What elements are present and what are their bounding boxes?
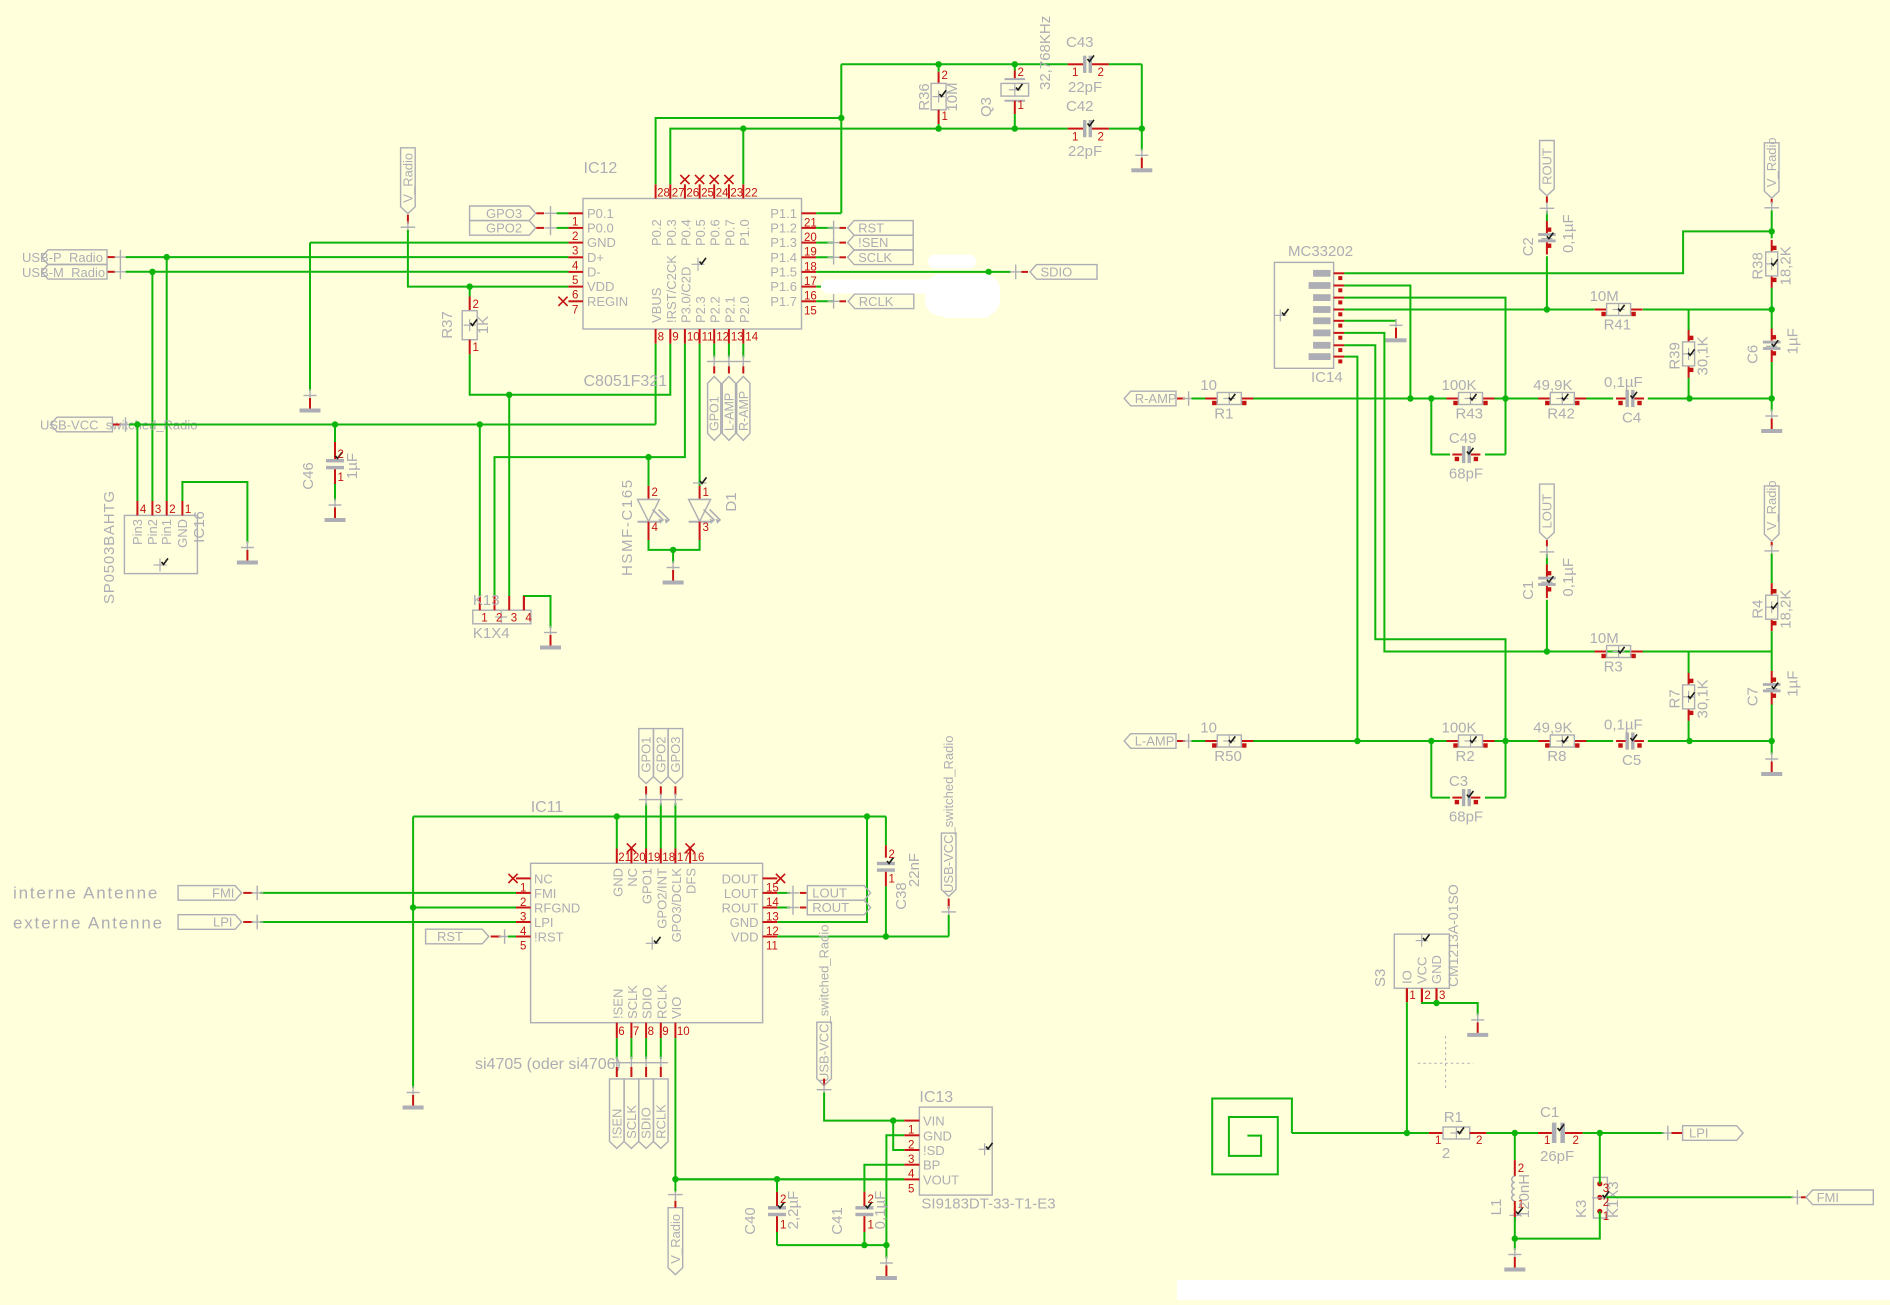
svg-text:HSMF-C165: HSMF-C165 [619, 478, 636, 576]
wire R-AMP under IC12 [742, 344, 744, 358]
svg-text:P2.2: P2.2 [708, 296, 723, 323]
capacitor C6 (1µF) [1771, 310, 1773, 329]
net flag GPO1 pennant under IC12 [708, 376, 721, 440]
svg-text:P1.1: P1.1 [770, 206, 797, 221]
svg-text:K1X4: K1X4 [473, 625, 510, 642]
svg-text:FMI: FMI [1817, 1190, 1839, 1205]
svg-text:GND: GND [730, 915, 759, 930]
net flag RCLK pennant [654, 1079, 669, 1149]
svg-text:5: 5 [908, 1183, 914, 1195]
svg-text:Pin2: Pin2 [145, 519, 160, 545]
svg-text:24: 24 [716, 188, 729, 200]
svg-text:1: 1 [703, 487, 709, 499]
wire LOUT dash [800, 892, 807, 894]
svg-text:0,1µF: 0,1µF [1560, 214, 1577, 253]
wire R4 to w6 [1771, 631, 1773, 651]
wire RCLK [816, 300, 833, 302]
resistor R38 (18,2K) [1771, 240, 1773, 252]
wire GPO3 to pin1 [557, 212, 569, 214]
net flag LOUT [807, 886, 870, 901]
tick USB-VCC [125, 417, 127, 432]
svg-text:20: 20 [633, 852, 646, 864]
wire GPO1 under IC12 [713, 344, 715, 358]
tick LPI [256, 915, 258, 930]
svg-text:P0.3: P0.3 [664, 219, 679, 246]
wire RCLK dash b [660, 1067, 662, 1077]
ground K13 [544, 632, 557, 634]
tick FMI b [1796, 1190, 1798, 1205]
svg-text:IC14: IC14 [1311, 369, 1343, 386]
wire GPO3 dash [536, 212, 544, 214]
svg-text:USB-P_Radio: USB-P_Radio [22, 250, 103, 265]
svg-text:ROUT: ROUT [812, 900, 849, 915]
svg-text:1: 1 [572, 216, 578, 228]
supply flag V_Radio (top right) [1764, 143, 1779, 198]
svg-text:GND: GND [587, 235, 616, 250]
junction feed K3 [1597, 1130, 1603, 1136]
wire V_Radio br [1771, 554, 1773, 584]
wire K3 pin1 to gnd [1515, 1211, 1600, 1238]
supply pennant USB-VCC_switched_Radio (IC13) [817, 1022, 832, 1085]
svg-text:si4705 (oder si4706): si4705 (oder si4706) [475, 1056, 621, 1073]
capacitor C4 (0,1µF) [1616, 398, 1626, 400]
svg-text:P0.7: P0.7 [722, 219, 737, 246]
svg-text:C5: C5 [1622, 752, 1641, 769]
wire C46 to ground [334, 484, 336, 501]
tick SCLK [833, 250, 835, 265]
resistor R41 (10M) [1595, 309, 1607, 311]
tick GPO2 [550, 221, 552, 236]
svg-text:FMI: FMI [534, 886, 556, 901]
capacitor C41 [863, 1192, 865, 1206]
net flag R-AMP [1124, 391, 1176, 406]
svg-text:3: 3 [572, 246, 578, 258]
svg-text:SCLK: SCLK [624, 1105, 639, 1139]
svg-text:C1: C1 [1540, 1104, 1559, 1121]
junction S3 gnd [1433, 1000, 1439, 1006]
net flag SDIO pennant [639, 1079, 654, 1149]
wire net VDD IC11 [777, 936, 948, 938]
net flag USB-VCC_switched_Radio [51, 417, 113, 432]
wire Lrow gnd [1771, 741, 1773, 755]
svg-text:C7: C7 [1745, 687, 1762, 706]
svg-text:CM1213A-01SO: CM1213A-01SO [1445, 884, 1461, 987]
wire FMI dash b [1801, 1196, 1806, 1198]
net flag R-AMP pennant under IC12 [737, 376, 750, 440]
svg-text:R-AMP: R-AMP [737, 391, 751, 431]
svg-text:C1: C1 [1520, 581, 1537, 600]
svg-text:D-: D- [587, 264, 601, 279]
svg-text:120nH: 120nH [1516, 1174, 1533, 1218]
wire net VIN [824, 1093, 904, 1121]
svg-text:1: 1 [338, 472, 344, 484]
svg-text:7: 7 [633, 1026, 639, 1038]
svg-text:GPO3/DCLK: GPO3/DCLK [669, 868, 684, 943]
svg-text:R37: R37 [439, 311, 456, 339]
white strip bottom [1177, 1280, 1890, 1300]
wire net IC13 GND [886, 1135, 904, 1245]
tick FMI [256, 886, 258, 901]
svg-text:K13: K13 [473, 592, 500, 609]
net flag FMI (antenna) [178, 886, 242, 901]
supply pennant LOUT [1540, 484, 1555, 539]
svg-text:C49: C49 [1449, 430, 1477, 447]
svg-text:V_Radio: V_Radio [668, 1214, 683, 1264]
tick SDIO [1015, 265, 1017, 280]
svg-text:R42: R42 [1547, 406, 1575, 423]
ground crystal [1135, 154, 1148, 156]
svg-text:GPO3: GPO3 [486, 206, 522, 221]
svg-text:1: 1 [473, 342, 479, 354]
capacitor C42 [1068, 128, 1083, 130]
svg-text:R2: R2 [1456, 748, 1475, 765]
wire IC13 gnd drop [885, 1245, 887, 1258]
white erased blobs [928, 255, 976, 269]
wire L-AMP under IC12 [728, 344, 730, 358]
wire IC14 pad2 (inverting R) [1344, 286, 1410, 399]
wire net XTAL1 (pin28) [656, 118, 842, 184]
IC IC13 box [919, 1107, 992, 1195]
svg-text:D+: D+ [587, 250, 604, 265]
junction Rrow d [1686, 395, 1692, 401]
resistor R8 (49,9K) [1538, 740, 1550, 742]
resistor R43 (100k) [1447, 398, 1459, 400]
wire GPO3v [674, 803, 676, 849]
ground under C46 [329, 504, 342, 506]
inductor L1 (120nH) [1514, 1133, 1516, 1160]
svg-text:30,1K: 30,1K [1695, 336, 1712, 375]
svg-text:R-AMP: R-AMP [1135, 391, 1177, 406]
dotted crosshair [1445, 1036, 1447, 1091]
resistor R37 [469, 287, 471, 297]
svg-text:LOUT: LOUT [724, 886, 759, 901]
svg-text:28: 28 [657, 188, 670, 200]
svg-text:DFS: DFS [684, 868, 699, 894]
svg-text:LPI: LPI [534, 915, 554, 930]
junction LED gnd [670, 547, 676, 553]
svg-text:4: 4 [525, 613, 532, 625]
wire RST dash [839, 227, 846, 229]
wire net V_Radio to IC12 VDD [408, 230, 569, 287]
wire USB-VCC dash IC11 [948, 899, 950, 909]
S3 pins [1406, 988, 1408, 1002]
svg-text:VBUS: VBUS [649, 287, 664, 323]
svg-text:12: 12 [716, 332, 729, 344]
svg-text:!SEN: !SEN [609, 1109, 624, 1139]
junction Rrow e [1769, 395, 1775, 401]
svg-text:LPI: LPI [213, 915, 233, 930]
svg-text:26pF: 26pF [1540, 1148, 1574, 1165]
svg-text:13: 13 [731, 332, 744, 344]
svg-text:R7: R7 [1667, 689, 1684, 708]
IC11 bottom pins [616, 1023, 618, 1038]
svg-text:100K: 100K [1442, 720, 1477, 737]
svg-text:10: 10 [1200, 720, 1217, 737]
svg-text:MC33202: MC33202 [1288, 243, 1353, 260]
svg-text:2: 2 [496, 613, 502, 625]
svg-text:R3: R3 [1604, 659, 1623, 676]
wire net VOUT [675, 1178, 904, 1180]
resistor R42 (49,9K) [1538, 398, 1550, 400]
tick GPO2v [654, 799, 669, 801]
svg-text:68pF: 68pF [1449, 466, 1483, 483]
svg-text:1: 1 [481, 613, 487, 625]
IC11 top pins [616, 849, 618, 864]
svg-text:V_Radio: V_Radio [400, 153, 415, 203]
tick GPO3v [668, 799, 683, 801]
svg-text:1: 1 [942, 111, 948, 123]
resistor R3 (10M) [1595, 651, 1607, 653]
wire C40 low [776, 1179, 778, 1191]
svg-text:SCLK: SCLK [858, 250, 892, 265]
wire SDIO dash [1021, 271, 1028, 273]
svg-text:P2.3: P2.3 [693, 296, 708, 323]
ground IC12 GND [304, 395, 317, 397]
svg-text:USB-VCC_switched_Radio: USB-VCC_switched_Radio [941, 735, 956, 893]
svg-text:C42: C42 [1066, 98, 1094, 115]
tick RCLK [833, 294, 835, 309]
svg-text:27: 27 [672, 188, 685, 200]
svg-text:0,1µF: 0,1µF [1604, 374, 1643, 391]
junction Lrow a [1354, 738, 1360, 744]
wire net FMI (K3 pin2) [1606, 1196, 1793, 1198]
IC14 pads [1313, 270, 1331, 277]
svg-text:22pF: 22pF [1068, 79, 1102, 96]
svg-text:externe Antenne: externe Antenne [13, 914, 164, 933]
svg-text:SCLK: SCLK [625, 985, 640, 1019]
wire !SEN dash [839, 242, 846, 244]
capacitor C3 (68pF) [1452, 797, 1462, 799]
tick R-AMP under IC12 [736, 361, 751, 363]
svg-text:10M: 10M [1590, 630, 1619, 647]
X marks IC12 top pins [680, 175, 689, 184]
svg-text:10M: 10M [944, 82, 961, 111]
IC12 bottom pins [655, 329, 657, 344]
IC IC14 MC33202 box [1274, 262, 1333, 368]
svg-text:P1.7: P1.7 [770, 294, 797, 309]
svg-text:C43: C43 [1066, 34, 1094, 51]
svg-text:P0.1: P0.1 [587, 206, 614, 221]
wire R-AMP dash under IC12 [742, 366, 744, 373]
capacitor C49 (68pF) [1452, 454, 1462, 456]
wire RST [816, 227, 833, 229]
wire !SEN drop [616, 1038, 618, 1059]
ground Rrow [1765, 415, 1778, 417]
svg-text:14: 14 [745, 332, 758, 344]
junction pin22 [740, 125, 746, 131]
svg-text:3: 3 [1439, 990, 1445, 1002]
wire antenna feed [1292, 1132, 1429, 1134]
wire LPI dash [243, 921, 252, 923]
capacitor C5 (0,1µF) [1616, 740, 1626, 742]
connector K13 K1X4 [473, 610, 531, 624]
svg-text:!RST/C2CK: !RST/C2CK [664, 255, 679, 323]
svg-text:L-AMP: L-AMP [1135, 734, 1175, 749]
IC IC12 C8051F321 box [583, 199, 802, 330]
svg-text:V_Radio: V_Radio [1764, 480, 1779, 530]
junction Rrow b [1428, 395, 1434, 401]
wire Rrow gnd [1771, 399, 1773, 412]
wire C49 branch [1430, 399, 1432, 455]
wire ROUT dash [800, 907, 807, 909]
wire SDIO drop [645, 1038, 647, 1059]
net flag !SEN [848, 235, 914, 250]
svg-text:VDD: VDD [731, 930, 758, 945]
svg-text:23: 23 [730, 188, 743, 200]
svg-text:R36: R36 [916, 83, 933, 111]
svg-text:2: 2 [942, 70, 948, 82]
svg-text:IC13: IC13 [919, 1089, 953, 1106]
svg-text:C6: C6 [1745, 345, 1762, 364]
svg-text:2: 2 [1442, 1145, 1450, 1162]
tick ROUT p [1540, 207, 1555, 209]
svg-text:1µF: 1µF [1785, 671, 1802, 697]
svg-text:26: 26 [686, 188, 699, 200]
svg-text:2: 2 [1098, 67, 1104, 79]
wire to crystal ground [1141, 129, 1143, 151]
svg-text:P0.6: P0.6 [708, 219, 723, 246]
svg-text:NC: NC [625, 868, 640, 887]
wire GPO2 to pin2 [557, 227, 569, 229]
svg-text:2: 2 [1573, 1135, 1579, 1147]
svg-text:2: 2 [473, 299, 479, 311]
net flag GPO2 [470, 221, 536, 236]
svg-text:VIN: VIN [923, 1114, 945, 1129]
svg-text:GPO1: GPO1 [708, 396, 722, 431]
tick RST IC11 [504, 929, 506, 944]
svg-text:1: 1 [1072, 132, 1078, 144]
wire LPI dash b [1672, 1132, 1683, 1134]
wire net D+ (USB-P_Radio) [126, 256, 569, 258]
svg-text:P1.3: P1.3 [770, 235, 797, 250]
svg-text:L-AMP: L-AMP [722, 393, 736, 431]
junction IC11 gnd pin21 [614, 813, 620, 819]
LED D1 left (HSMF-C165) [648, 457, 650, 486]
net flag FMI (bottom) [1806, 1190, 1873, 1205]
wire net RST (R37 to IC12 pin9 and K13) [470, 344, 671, 395]
wire LED cathodes to ground [649, 540, 700, 550]
junction Rrow c [1502, 395, 1508, 401]
wire RFGND [413, 907, 516, 909]
svg-text:3: 3 [155, 504, 161, 516]
wire net D- (USB-M_Radio) [126, 271, 569, 273]
wire USB-M_Radio red dash [108, 271, 116, 273]
svg-text:IO: IO [1399, 970, 1414, 984]
tick USB-VCC IC13 [817, 1089, 832, 1091]
svg-text:GPO2/INT: GPO2/INT [654, 868, 669, 929]
IC13 pins [904, 1120, 919, 1122]
tick USB-P_Radio [119, 250, 121, 265]
wire L1 gnd [1514, 1239, 1516, 1250]
svg-text:7: 7 [572, 304, 578, 316]
svg-text:RST: RST [437, 929, 463, 944]
svg-text:1: 1 [1544, 1135, 1550, 1147]
wire LPI [260, 921, 516, 923]
junction R36 top [935, 61, 941, 67]
svg-text:49,9K: 49,9K [1533, 377, 1572, 394]
net flag ROUT [807, 900, 870, 915]
svg-text:R38: R38 [1750, 252, 1767, 280]
svg-text:10M: 10M [1590, 288, 1619, 305]
svg-text:GPO2: GPO2 [486, 220, 522, 235]
svg-text:P3.0/C2D: P3.0/C2D [678, 267, 693, 323]
svg-text:0,1µF: 0,1µF [1604, 717, 1643, 734]
svg-text:16: 16 [692, 852, 705, 864]
svg-text:IC11: IC11 [531, 799, 564, 816]
svg-text:C4: C4 [1622, 410, 1641, 427]
svg-text:C46: C46 [300, 462, 317, 490]
svg-text:RCLK: RCLK [654, 984, 669, 1019]
wire S3 VCC+GND to ground [1422, 1002, 1478, 1015]
svg-text:4: 4 [572, 260, 579, 272]
wire RCLK dash [839, 300, 846, 302]
svg-text:V_Radio: V_Radio [1764, 137, 1779, 187]
svg-text:2: 2 [338, 449, 344, 461]
wire USB-VCC to VDD [948, 915, 950, 937]
net flag RST [848, 221, 914, 236]
svg-text:NC: NC [534, 871, 553, 886]
IC11 right pins [763, 877, 778, 879]
svg-text:RFGND: RFGND [534, 901, 580, 916]
wire net R-AMP row [1192, 398, 1206, 400]
wire IC14 pad7 (feedback L) [1344, 345, 1505, 797]
junction VBUS c [477, 421, 483, 427]
svg-text:22nF: 22nF [906, 853, 923, 887]
resistor R39 (30,1K) [1688, 310, 1690, 331]
svg-text:2: 2 [652, 487, 658, 499]
svg-text:25: 25 [701, 188, 714, 200]
net flag L-AMP [1124, 734, 1176, 749]
tick GPO1 [639, 799, 654, 801]
svg-text:DOUT: DOUT [722, 871, 759, 886]
net flag GPO3 pennant [668, 729, 683, 784]
svg-text:2: 2 [572, 231, 578, 243]
svg-text:ROUT: ROUT [1539, 148, 1554, 185]
wire IC14 pad3 (feedback R) [1344, 298, 1505, 455]
svg-text:interne Antenne: interne Antenne [13, 884, 159, 903]
svg-text:2: 2 [1476, 1135, 1482, 1147]
resistor R36 [938, 64, 940, 71]
svg-text:!SEN: !SEN [610, 989, 625, 1019]
capacitor C1 (0,1µF) [1546, 554, 1548, 565]
svg-text:10: 10 [687, 332, 700, 344]
IC11 left pins [516, 877, 531, 879]
supply pennant USB-VCC_switched_Radio (IC11) [941, 833, 956, 896]
wire P1.6 stub [816, 286, 821, 288]
capacitor C46 [334, 442, 336, 451]
svg-text:!SD: !SD [923, 1143, 945, 1158]
svg-text:P1.6: P1.6 [770, 279, 797, 294]
svg-text:SDIO: SDIO [1041, 264, 1073, 279]
LED D1 right [699, 344, 701, 486]
svg-text:19: 19 [648, 852, 661, 864]
svg-text:10: 10 [677, 1026, 690, 1038]
svg-text:9: 9 [662, 1026, 668, 1038]
net flag GPO2 pennant [654, 729, 669, 784]
wire net K13 pin2 to IC12 P3.0 [495, 344, 685, 596]
tick SDIO b [639, 1062, 654, 1064]
crystal Q3 [1014, 64, 1016, 70]
svg-text:GPO1: GPO1 [639, 736, 654, 772]
tick V_Radio IC12 [401, 226, 416, 228]
net flag LPI (antenna) [178, 915, 242, 930]
IC12 right pins [802, 212, 817, 214]
wire GPO1 [645, 803, 647, 849]
wire FMI [260, 892, 516, 894]
junction VIO V_Radio [672, 1176, 678, 1182]
svg-text:C2: C2 [1520, 237, 1537, 256]
tick LPI b [1667, 1126, 1669, 1141]
